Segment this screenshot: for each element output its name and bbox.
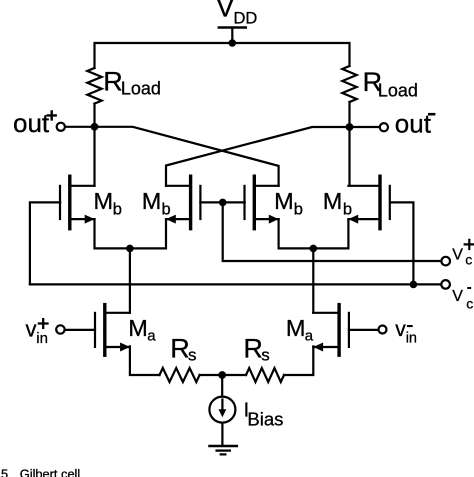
wire M_a1 source down to bottom rail <box>130 346 160 375</box>
svg-text:R: R <box>243 333 263 363</box>
current source I_Bias <box>209 397 283 430</box>
terminal out+ <box>13 108 91 138</box>
wire tail node to I_Bias <box>221 375 223 397</box>
wire left R_s to center node <box>200 374 246 376</box>
terminal Vc- <box>441 280 473 312</box>
svg-text:M: M <box>323 188 343 214</box>
svg-text:V: V <box>216 0 234 23</box>
wire right R_s to M_a2 source <box>284 346 313 375</box>
svg-text:M: M <box>94 188 114 214</box>
wire M_b1 gate to Vc- line <box>30 202 60 284</box>
svg-text:V: V <box>452 247 463 264</box>
node tail <box>218 371 226 379</box>
transistor M_b2 <box>142 176 201 229</box>
svg-text:Bias: Bias <box>247 409 283 430</box>
svg-text:R: R <box>170 333 190 363</box>
wire Vc- line <box>30 283 441 285</box>
wire inner gates to Vc+ <box>223 202 442 261</box>
wire cross-couple out+ to M_b3 drain <box>95 127 279 186</box>
svg-text:M: M <box>128 315 148 341</box>
svg-text:c: c <box>465 252 472 268</box>
svg-text:in: in <box>36 330 48 347</box>
svg-text:in: in <box>406 331 417 347</box>
node out- <box>346 123 354 131</box>
svg-text:5.: 5. <box>1 467 12 477</box>
wire I_Bias to ground <box>221 423 223 446</box>
svg-text:out: out <box>395 108 432 138</box>
node VDD rail junction <box>229 39 237 47</box>
transistor M_b3 <box>245 176 303 229</box>
svg-text:M: M <box>142 188 162 214</box>
wire VDD rail <box>95 43 350 68</box>
svg-text:a: a <box>305 328 314 345</box>
transistor M_a2 <box>286 305 349 356</box>
svg-text:out: out <box>13 108 50 138</box>
terminal v_in+ <box>26 317 96 348</box>
wire left branch (resistor to M_b1 drain) <box>93 104 95 186</box>
node M_b4 gate / Vc- junction <box>410 281 418 289</box>
node out+ <box>91 123 99 131</box>
power VDD supply symbol <box>216 0 257 43</box>
resistor R_s left <box>160 333 200 382</box>
resistor R_s right <box>243 333 284 382</box>
svg-text:Load: Load <box>378 81 418 101</box>
node left bus <box>126 245 134 253</box>
wire M_b4 gate drop <box>391 202 413 284</box>
wire left bus to M_a1 drain <box>129 248 131 312</box>
svg-text:M: M <box>274 188 294 214</box>
terminal v_in- <box>349 318 417 347</box>
transistor M_b4 <box>323 176 390 229</box>
svg-text:Gilbert cell: Gilbert cell <box>20 467 80 477</box>
transistor M_a1 <box>95 305 156 356</box>
terminal Vc+ <box>441 240 473 268</box>
svg-text:v: v <box>26 317 37 342</box>
ground <box>210 446 237 454</box>
svg-text:s: s <box>261 346 270 365</box>
wire right bus to M_a2 drain <box>312 248 314 312</box>
wire inner gates M_b2-M_b3 <box>200 201 244 203</box>
terminal out- <box>353 108 435 138</box>
svg-text:V: V <box>452 288 463 305</box>
node right bus <box>310 245 318 253</box>
svg-text:DD: DD <box>234 10 258 28</box>
resistor R_Load right <box>342 66 418 102</box>
svg-text:b: b <box>162 200 171 218</box>
node inner gates <box>219 199 227 207</box>
wire right branch (resistor to M_b4 drain) <box>348 102 350 186</box>
svg-text:b: b <box>294 200 303 218</box>
svg-text:a: a <box>147 328 156 345</box>
svg-text:b: b <box>113 200 122 218</box>
svg-text:M: M <box>286 315 306 341</box>
resistor R_Load left <box>87 67 161 104</box>
wire cross-couple out- to M_b2 drain <box>166 127 350 186</box>
svg-text:v: v <box>395 318 406 341</box>
wire right source bus <box>279 219 349 248</box>
svg-text:Load: Load <box>121 78 161 98</box>
svg-text:c: c <box>466 296 473 312</box>
svg-text:s: s <box>188 346 197 365</box>
wire left source bus <box>95 219 167 248</box>
transistor M_b1 <box>60 176 122 229</box>
svg-text:R: R <box>103 67 123 97</box>
svg-text:b: b <box>343 200 352 218</box>
